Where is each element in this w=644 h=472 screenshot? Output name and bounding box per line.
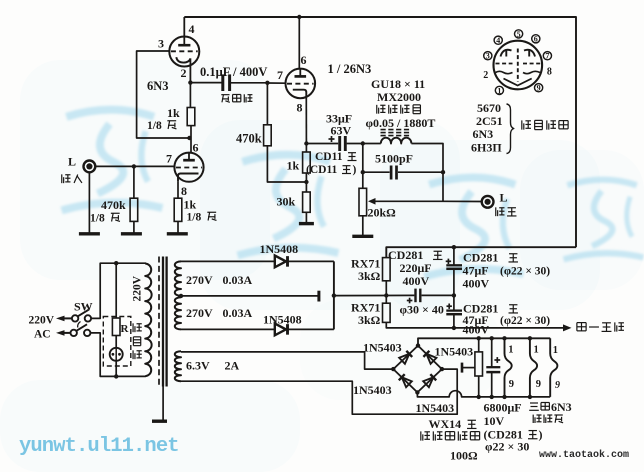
svg-text:1/8: 1/8 bbox=[147, 120, 162, 132]
svg-text:): ) bbox=[539, 427, 543, 441]
svg-text:7: 7 bbox=[277, 68, 283, 82]
svg-text:AC: AC bbox=[34, 329, 51, 341]
svg-text:1N5408: 1N5408 bbox=[260, 242, 299, 256]
svg-text:L: L bbox=[500, 191, 508, 205]
svg-text:2A: 2A bbox=[225, 359, 240, 373]
svg-text:63V: 63V bbox=[331, 124, 352, 138]
svg-text:1N5403: 1N5403 bbox=[363, 341, 402, 355]
svg-text:1/8: 1/8 bbox=[90, 213, 105, 225]
svg-text:CD281: CD281 bbox=[388, 248, 423, 262]
svg-text:1/8: 1/8 bbox=[187, 212, 202, 224]
svg-text:270V: 270V bbox=[186, 273, 213, 287]
svg-text:2C51: 2C51 bbox=[476, 114, 503, 128]
svg-text:5670: 5670 bbox=[477, 101, 501, 115]
svg-text:400V: 400V bbox=[463, 323, 490, 337]
svg-text:1k: 1k bbox=[184, 198, 197, 212]
svg-text:47μF: 47μF bbox=[463, 264, 489, 278]
svg-text:1: 1 bbox=[534, 345, 539, 356]
svg-text:1N5403: 1N5403 bbox=[353, 383, 392, 397]
svg-text:SW: SW bbox=[74, 300, 93, 314]
svg-text:6N3: 6N3 bbox=[551, 400, 572, 414]
svg-text:9: 9 bbox=[536, 379, 541, 390]
svg-text:8: 8 bbox=[297, 101, 303, 115]
svg-text:20kΩ: 20kΩ bbox=[368, 206, 397, 220]
svg-text:5: 5 bbox=[517, 30, 521, 39]
svg-text:1: 1 bbox=[553, 345, 558, 356]
svg-text:1N5403: 1N5403 bbox=[416, 401, 455, 415]
svg-text:220V: 220V bbox=[132, 275, 144, 301]
svg-text:470k: 470k bbox=[101, 198, 126, 212]
svg-text:7: 7 bbox=[545, 52, 549, 61]
svg-text:(φ22 × 30): (φ22 × 30) bbox=[500, 315, 550, 327]
svg-text:φ0.05 / 1880T: φ0.05 / 1880T bbox=[366, 116, 436, 130]
svg-text:8: 8 bbox=[181, 184, 187, 198]
svg-text:0.03A: 0.03A bbox=[223, 306, 253, 320]
svg-text:5100pF: 5100pF bbox=[375, 152, 413, 166]
svg-text:(φ22 × 30): (φ22 × 30) bbox=[500, 266, 550, 278]
svg-text:1 / 26N3: 1 / 26N3 bbox=[328, 62, 372, 76]
svg-text:(CD11: (CD11 bbox=[306, 164, 338, 176]
svg-text:9: 9 bbox=[537, 84, 541, 93]
svg-text:φ22 × 30: φ22 × 30 bbox=[485, 440, 529, 454]
svg-text:CD11: CD11 bbox=[315, 151, 343, 163]
svg-text:GU18 × 11: GU18 × 11 bbox=[371, 77, 425, 91]
svg-text:4: 4 bbox=[496, 36, 500, 45]
svg-text:2: 2 bbox=[483, 70, 488, 81]
svg-text:400V: 400V bbox=[463, 277, 490, 291]
svg-text:3kΩ: 3kΩ bbox=[358, 313, 381, 327]
svg-text:6: 6 bbox=[193, 141, 199, 155]
svg-text:220V: 220V bbox=[29, 315, 55, 327]
svg-text:100Ω: 100Ω bbox=[450, 449, 478, 463]
svg-text:L: L bbox=[68, 155, 76, 169]
svg-text:1k: 1k bbox=[167, 106, 180, 120]
svg-text:1: 1 bbox=[497, 86, 501, 95]
svg-text:1N5403: 1N5403 bbox=[435, 345, 474, 359]
svg-text:1k: 1k bbox=[287, 159, 300, 173]
svg-text:6: 6 bbox=[534, 35, 538, 44]
svg-text:6800μF: 6800μF bbox=[484, 401, 522, 415]
svg-text:9: 9 bbox=[509, 379, 514, 390]
svg-text:6N3: 6N3 bbox=[147, 79, 169, 93]
svg-text:MX2000: MX2000 bbox=[377, 90, 421, 104]
svg-text:0.1μF / 400V: 0.1μF / 400V bbox=[200, 65, 267, 79]
svg-text:6N3: 6N3 bbox=[473, 127, 494, 141]
svg-text:6H3Π: 6H3Π bbox=[471, 141, 502, 155]
svg-text:φ30 × 40: φ30 × 40 bbox=[400, 303, 444, 317]
svg-text:3kΩ: 3kΩ bbox=[358, 269, 381, 283]
svg-text:6: 6 bbox=[301, 53, 307, 67]
svg-text:www.taotaok.com: www.taotaok.com bbox=[539, 449, 629, 461]
svg-text:0.03A: 0.03A bbox=[223, 273, 253, 287]
svg-text:CD281: CD281 bbox=[463, 251, 498, 265]
svg-text:3: 3 bbox=[158, 37, 164, 51]
svg-text:30k: 30k bbox=[277, 195, 296, 209]
svg-text:270V: 270V bbox=[186, 306, 213, 320]
svg-text:2: 2 bbox=[181, 66, 187, 80]
svg-text:6.3V: 6.3V bbox=[186, 359, 210, 373]
svg-text:3: 3 bbox=[486, 52, 490, 61]
svg-text:): ) bbox=[353, 164, 357, 176]
svg-text:8: 8 bbox=[547, 67, 552, 78]
svg-text:220μF: 220μF bbox=[400, 261, 432, 275]
svg-text:7: 7 bbox=[166, 152, 172, 166]
svg-text:470k: 470k bbox=[236, 132, 262, 146]
svg-text:R: R bbox=[121, 323, 130, 335]
svg-text:10V: 10V bbox=[484, 414, 505, 428]
svg-text:WX14: WX14 bbox=[429, 417, 462, 431]
svg-text:1: 1 bbox=[508, 345, 513, 356]
svg-text:1N5408: 1N5408 bbox=[263, 313, 302, 327]
svg-text:yunwt.ul11.net: yunwt.ul11.net bbox=[19, 435, 179, 458]
svg-text:4: 4 bbox=[189, 22, 195, 36]
svg-text:9: 9 bbox=[555, 380, 560, 391]
svg-text:400V: 400V bbox=[403, 274, 430, 288]
